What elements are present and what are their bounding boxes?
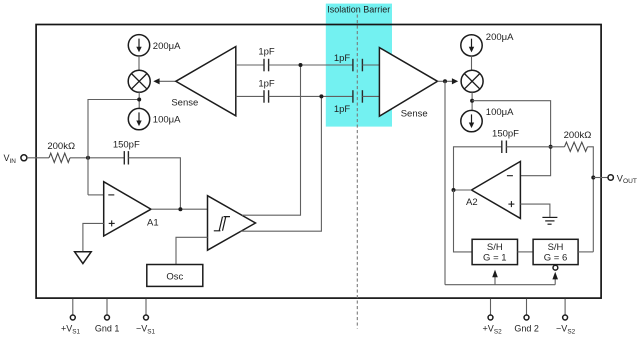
svg-text:Sense: Sense xyxy=(401,109,428,120)
wire comparator output upper to barrier cap xyxy=(242,65,301,215)
junction A1 output feedback xyxy=(178,207,182,211)
label 1pF (upper barrier) xyxy=(334,53,351,64)
svg-text:Sense: Sense xyxy=(171,98,198,109)
comparator (duty cycle modulator) xyxy=(208,196,256,251)
svg-text:Osc: Osc xyxy=(166,271,183,282)
wire 200uA to multiplier (output) xyxy=(471,56,473,70)
S/H G=6 box xyxy=(533,239,578,264)
pin -VS2 xyxy=(556,299,576,336)
wire oscillator to comparator xyxy=(176,237,208,264)
isolation barrier dashed line xyxy=(356,15,358,329)
sense amp (output side) xyxy=(379,48,437,117)
label 100uA (input side) xyxy=(153,114,181,125)
svg-text:Isolation Barrier: Isolation Barrier xyxy=(327,4,390,14)
wire sense2 output to multiplier with arrow xyxy=(438,78,459,84)
wire sense to multiplier with arrow xyxy=(153,78,176,84)
wire demod node to A2 inverting input xyxy=(472,101,550,176)
wire 200uA to multiplier xyxy=(138,56,140,70)
capacitor 150pF (output integrator) xyxy=(502,141,507,154)
wire lower cap to junction xyxy=(269,95,353,97)
label 200kohm (output) xyxy=(564,130,592,141)
junction lower barrier node xyxy=(319,94,323,98)
svg-text:200kΩ: 200kΩ xyxy=(564,130,592,141)
op-amp A2 xyxy=(472,161,521,218)
label 200kohm (input) xyxy=(47,141,75,152)
svg-text:G = 1: G = 1 xyxy=(483,253,507,264)
resistor 200k (input) xyxy=(49,153,70,162)
wire S/H G=6 to VOUT node xyxy=(578,251,593,253)
wire cap to feedback junction xyxy=(506,146,564,148)
svg-text:S/H: S/H xyxy=(548,242,564,253)
wire resistor to VOUT node xyxy=(588,147,594,252)
capacitor 1pF (lower barrier) xyxy=(353,90,363,103)
node VIN terminal xyxy=(21,155,27,161)
resistor 200k (output) xyxy=(565,142,588,151)
wire A2 noninverting to ground xyxy=(520,204,550,217)
capacitor 1pF (upper left) xyxy=(264,59,269,72)
svg-text:G = 6: G = 6 xyxy=(544,253,568,264)
current source 100uA (input side) xyxy=(128,108,149,129)
junction demodulator node xyxy=(470,99,474,103)
label A1 xyxy=(147,218,159,229)
svg-text:Gnd 2: Gnd 2 xyxy=(514,324,539,334)
wire comparator output lower to barrier cap xyxy=(241,96,322,231)
wire cap to A1 output node xyxy=(128,158,180,209)
svg-text:200μA: 200μA xyxy=(153,41,181,52)
capacitor 1pF (upper barrier) xyxy=(353,59,363,72)
wire A2 output xyxy=(454,189,472,191)
wire sense upper input xyxy=(236,64,264,66)
label 200uA (input side) xyxy=(153,41,181,52)
wire sense lower input xyxy=(236,95,264,97)
label 200uA (output side) xyxy=(486,32,514,43)
svg-text:100μA: 100μA xyxy=(486,107,514,118)
label 1pF (lower left) xyxy=(258,78,275,89)
label 1pF (lower barrier) xyxy=(334,104,351,115)
junction VOUT node xyxy=(591,176,595,180)
wire S/H control vertical xyxy=(444,81,446,284)
junction A2 output xyxy=(452,188,456,192)
isolation barrier shaded region xyxy=(326,4,392,127)
svg-text:A1: A1 xyxy=(147,218,159,229)
label 100uA (output side) xyxy=(486,107,514,118)
isolation barrier label xyxy=(327,4,390,14)
wire multiplier to 100uA xyxy=(138,92,140,108)
capacitor 150pF (input integrator) xyxy=(124,151,128,164)
outer package box xyxy=(36,25,601,299)
earth ground (output side) xyxy=(542,217,557,224)
wire S/H control horizontal xyxy=(445,284,555,286)
node VOUT terminal xyxy=(608,175,613,180)
label A2 xyxy=(466,197,478,208)
svg-text:200μA: 200μA xyxy=(486,32,514,43)
wire A1 noninverting input to ground xyxy=(83,223,104,251)
label 150pF (output) xyxy=(492,128,519,139)
wire VOUT node to terminal xyxy=(593,177,608,179)
pin -VS1 xyxy=(136,299,156,336)
junction A2 feedback node xyxy=(549,145,553,149)
junction upper barrier node xyxy=(299,63,303,67)
label VIN xyxy=(4,153,17,165)
svg-text:1pF: 1pF xyxy=(258,78,275,89)
pin Gnd 1 xyxy=(95,299,120,334)
svg-text:200kΩ: 200kΩ xyxy=(47,141,75,152)
svg-text:1pF: 1pF xyxy=(334,53,351,64)
label Sense (output side) xyxy=(401,109,428,120)
oscillator box Osc xyxy=(147,265,203,287)
sense amp (input side) xyxy=(176,47,236,116)
svg-text:A2: A2 xyxy=(466,197,478,208)
arrow into S/H G=1 xyxy=(492,270,498,285)
ground (A1 input common) xyxy=(75,252,92,264)
current source 100uA (output side) xyxy=(461,110,482,131)
svg-text:1pF: 1pF xyxy=(258,46,275,57)
junction summing node xyxy=(86,156,90,160)
svg-text:1pF: 1pF xyxy=(334,104,351,115)
wire A2 output to S/H G=1 xyxy=(454,190,473,252)
pin +VS2 xyxy=(483,299,503,336)
capacitor 1pF (lower left) xyxy=(264,90,269,103)
wire resistor to summing node xyxy=(70,157,124,159)
label 1pF (upper left) xyxy=(258,46,275,57)
svg-text:S/H: S/H xyxy=(487,242,503,253)
pin +VS1 xyxy=(61,299,81,336)
wire lower barrier cap to sense2 xyxy=(362,95,379,97)
current source 200uA (output side) xyxy=(461,35,482,56)
label Sense (input side) xyxy=(171,98,198,109)
label VOUT xyxy=(617,173,637,185)
S/H G=1 box xyxy=(472,239,517,264)
svg-text:150pF: 150pF xyxy=(492,128,519,139)
multiplier switch (output side) xyxy=(461,70,483,92)
svg-text:Gnd 1: Gnd 1 xyxy=(95,324,120,334)
wire A2 output feedback xyxy=(454,147,502,190)
wire multiplier to 100uA (output) xyxy=(471,92,473,110)
wire between S/H boxes xyxy=(518,251,534,253)
arrow into S/H G=6 with inverting bubble xyxy=(552,265,558,284)
multiplier switch (input side) xyxy=(128,70,150,92)
op-amp A1 xyxy=(104,182,151,236)
wire A1 output to comparator xyxy=(151,208,208,210)
wire to A1 inverting input xyxy=(88,194,104,196)
wire upper barrier cap to sense2 xyxy=(362,64,379,66)
wire summing node up and to modulator junction xyxy=(88,100,139,195)
wire VIN to resistor xyxy=(27,157,49,159)
current source 200uA (input side) xyxy=(128,35,149,56)
svg-text:150pF: 150pF xyxy=(113,139,140,150)
junction modulator node xyxy=(137,98,141,102)
label 150pF (input) xyxy=(113,139,140,150)
svg-text:100μA: 100μA xyxy=(153,114,181,125)
wire upper cap to junction xyxy=(269,64,353,66)
pin Gnd 2 xyxy=(514,299,539,334)
junction sense2 output xyxy=(443,79,447,83)
